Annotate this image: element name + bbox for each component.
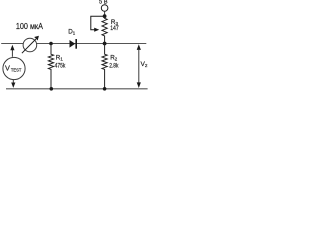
svg-text:147: 147 — [110, 25, 119, 32]
meter M1 arrow — [22, 36, 39, 54]
svg-text:TEST: TEST — [11, 67, 22, 72]
node C pot top junction — [103, 14, 107, 18]
meter M1 circle — [23, 38, 37, 52]
resistor R1 — [48, 44, 53, 89]
source VTEST arrow down — [11, 80, 15, 88]
svg-text:100 мкА: 100 мкА — [16, 22, 44, 31]
source VTEST arrow up — [10, 45, 14, 57]
source VTEST circle — [3, 57, 25, 79]
resistor R3 — [102, 16, 107, 43]
resistor R2 — [102, 44, 107, 89]
node D top junction R2 — [103, 42, 107, 46]
diode D1 — [70, 39, 77, 49]
wire bottom rail — [6, 88, 148, 90]
svg-text:V: V — [5, 63, 10, 72]
node E bottom junction R2 — [103, 87, 107, 91]
potentiometer R3 wiper loop — [91, 16, 105, 32]
voltage V2 arrow — [137, 44, 141, 88]
node B bottom junction R1 — [50, 87, 54, 91]
wire terminal stub — [104, 11, 106, 16]
svg-text:475k: 475k — [55, 63, 66, 70]
wire top rail — [1, 43, 146, 45]
node A top junction R1 — [49, 42, 53, 46]
terminal 5V circle — [101, 5, 108, 12]
svg-text:2.8k: 2.8k — [109, 63, 119, 70]
